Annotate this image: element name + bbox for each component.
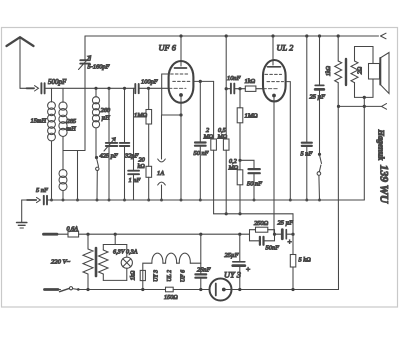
transformer output secondary: [351, 47, 358, 98]
svg-text:UY 3: UY 3: [224, 271, 241, 280]
svg-text:MΩ: MΩ: [203, 134, 214, 141]
svg-text:UF 6: UF 6: [181, 270, 187, 282]
wire B+ output line: [232, 289, 339, 291]
svg-text:250Ω: 250Ω: [254, 220, 269, 227]
wire tuning-cap branch x=85: [84, 36, 86, 60]
node ext speaker tap: [337, 105, 340, 108]
svg-text:1A: 1A: [157, 170, 164, 177]
wire speaker bottom loop: [355, 79, 374, 97]
node 25nF bottom: [199, 288, 202, 291]
node transformer top left: [86, 233, 89, 236]
transformer output core: [345, 59, 347, 85]
svg-text:1MΩ: 1MΩ: [134, 112, 148, 119]
node 260uH top: [94, 87, 97, 90]
svg-text:25µF: 25µF: [225, 252, 239, 259]
node HT 5nF top: [305, 34, 308, 37]
svg-text:5 nF: 5 nF: [301, 150, 313, 157]
wire grid line y=88.3: [45, 87, 136, 89]
svg-text:MΩ: MΩ: [228, 165, 239, 172]
svg-text:1kΩ: 1kΩ: [326, 65, 332, 76]
node UF6 anode top: [179, 34, 182, 37]
capacitor 25uF bias electrolytic: [275, 230, 294, 239]
capacitor 500pF: [41, 83, 44, 93]
resistor 1kOhm grid stopper: [245, 86, 263, 91]
svg-text:1kΩ: 1kΩ: [245, 78, 256, 85]
capacitor 25nF mains: [195, 234, 206, 289]
coil 15mH: [48, 88, 56, 200]
wire mains top line: [57, 233, 68, 235]
resistor 1MOhm UL2 grid leak: [237, 89, 243, 170]
node 0.5M bias: [225, 212, 228, 215]
wire heater to 25nF line: [190, 262, 201, 264]
node 5kOhm bottom: [291, 288, 294, 291]
node lamp tap top: [114, 233, 117, 236]
resistor 20kOhm: [146, 166, 152, 200]
ground: [17, 200, 27, 228]
resistor 150Ohm: [166, 287, 210, 292]
connector arrow ext speaker: [382, 104, 387, 110]
node secondary ground: [363, 96, 366, 99]
switch mains: [58, 287, 88, 292]
switch wave band: [96, 158, 99, 200]
wire jog coupling: [63, 150, 85, 152]
wire UF6 anode: [180, 36, 182, 62]
surge gap 1A: [158, 115, 166, 200]
wire 1nF branch: [133, 88, 135, 200]
wire 32pF branch: [124, 88, 126, 200]
node band switch top: [95, 156, 98, 159]
svg-text:32pF: 32pF: [124, 153, 139, 160]
node cathode tie: [179, 113, 182, 116]
svg-text:50 nF: 50 nF: [194, 150, 209, 157]
node screen junction: [199, 80, 202, 83]
mains stub top: [44, 233, 58, 236]
wire mains bottom line: [88, 289, 166, 291]
svg-text:MΩ: MΩ: [217, 134, 228, 141]
svg-text:UL 2: UL 2: [167, 270, 173, 282]
coil antenna coupling lower: [59, 151, 67, 201]
capacitor 5nF ground: [44, 196, 47, 205]
wire UF6 screen to divider: [193, 80, 213, 82]
wire bias line: [214, 213, 293, 215]
svg-text:50nF: 50nF: [266, 245, 280, 252]
tube UF6: [169, 61, 194, 103]
node 425pF top: [107, 87, 110, 90]
svg-text:15mH: 15mH: [31, 118, 47, 125]
heater winding UF6: [177, 253, 191, 263]
node HT 25uF top: [318, 34, 321, 37]
svg-text:220 V~: 220 V~: [51, 259, 71, 266]
svg-text:285: 285: [67, 118, 77, 125]
node bias line corner: [291, 233, 294, 236]
resistor 0.2MOhm: [237, 170, 243, 214]
svg-text:50 nF: 50 nF: [247, 181, 262, 188]
node 25uF bottom: [238, 288, 241, 291]
wire heater resistor top jog: [143, 263, 152, 270]
node bias loop right: [273, 233, 276, 236]
wire mains line to bias loop: [79, 233, 250, 235]
wire UF6 cathode to bus: [180, 97, 182, 201]
capacitor 50nF AVC: [240, 160, 260, 200]
svg-text:1kΩ: 1kΩ: [131, 271, 137, 281]
capacitor 32pF: [120, 143, 130, 146]
wire speaker top loop: [355, 47, 374, 64]
svg-text:Hagenuk: Hagenuk: [377, 129, 386, 161]
resistor 5kOhm: [290, 255, 296, 290]
svg-text:5 kΩ: 5 kΩ: [299, 257, 312, 264]
bias loop resistor 250Ohm: [250, 227, 275, 234]
node HT drop junction: [225, 34, 228, 37]
node grid junction: [147, 87, 150, 90]
svg-text:1 nF: 1 nF: [129, 177, 141, 184]
node ext speaker cross: [363, 105, 366, 108]
bias loop capacitor 50nF: [250, 234, 275, 245]
svg-text:10nF: 10nF: [227, 75, 241, 82]
node winding bottom left: [86, 288, 89, 291]
wire lamp top jog: [103, 244, 127, 246]
svg-text:25nF: 25nF: [197, 267, 211, 274]
wire secondary ground drop: [363, 97, 365, 200]
lamp 6.3V 0.3A: [121, 245, 132, 281]
node 0.2M bias: [238, 212, 241, 215]
wire bus chassis y=200: [47, 199, 364, 201]
node 25uF cathode: [238, 233, 241, 236]
resistor 1kOhm heater: [140, 270, 145, 289]
node UL2 grid tap: [238, 87, 241, 90]
wire g3-cathode tie: [162, 74, 181, 115]
wire ext speaker line: [339, 105, 382, 107]
wire grid line after 100pF: [139, 87, 169, 89]
svg-text:150Ω: 150Ω: [164, 294, 178, 301]
wire bias line drop: [292, 214, 294, 255]
wire top HT rail y=36: [85, 35, 379, 37]
transformer output primary: [335, 36, 342, 290]
svg-text:25 µF: 25 µF: [278, 220, 294, 227]
switch HT: [317, 155, 321, 200]
node 10nF junction: [225, 87, 228, 90]
svg-text:25 µF: 25 µF: [310, 94, 326, 101]
heater winding UL2: [163, 253, 177, 263]
svg-text:6,3V 0,3A: 6,3V 0,3A: [113, 249, 138, 256]
connector arrow top right: [381, 33, 387, 39]
svg-text:139 WU: 139 WU: [378, 165, 390, 204]
node bus junctions: [50, 199, 321, 202]
node bias divider tap: [238, 159, 241, 162]
variable capacitor 5-160pF: [79, 56, 92, 70]
resistor 0.5MOhm: [223, 89, 229, 214]
antenna input arrow: [27, 86, 39, 91]
speaker: [369, 53, 390, 94]
svg-text:100pF: 100pF: [141, 79, 158, 86]
svg-text:kΩ: kΩ: [138, 163, 146, 170]
tube UL2: [263, 60, 286, 101]
wire antenna feed to input arrow: [20, 87, 26, 89]
capacitor 50nF screen: [195, 81, 206, 200]
svg-text:1MΩ: 1MΩ: [245, 113, 259, 120]
capacitor 1nF: [128, 171, 139, 175]
transformer mains left winding: [83, 234, 93, 289]
resistor 1MOhm grid leak: [146, 88, 152, 166]
svg-text:mH: mH: [67, 126, 77, 133]
wire HT to 10nF junction: [225, 36, 227, 89]
transformer mains right winding: [99, 245, 109, 281]
coil 260uH: [92, 88, 99, 157]
variable capacitor 425pF: [104, 138, 117, 152]
svg-text:5-160pF: 5-160pF: [88, 64, 110, 71]
coil 285mH: [59, 88, 67, 150]
wire branch x=77.5 to bus: [77, 151, 79, 201]
node 1kOhm bottom: [141, 288, 144, 291]
svg-text:UY 3: UY 3: [154, 270, 160, 282]
mains stub bottom: [45, 288, 59, 291]
tube UY3: [210, 279, 232, 301]
svg-text:UL 2: UL 2: [277, 44, 294, 53]
svg-text:0,6A: 0,6A: [67, 226, 79, 233]
svg-text:+: +: [246, 265, 251, 274]
capacitor 25uF reservoir: [233, 234, 245, 289]
transformer mains core: [95, 248, 98, 276]
wire lamp bottom jog: [103, 279, 127, 281]
wire lamp tap: [114, 234, 116, 244]
capacitor 100pF: [135, 84, 138, 93]
wire UL2 cathode: [273, 97, 275, 234]
node primary HT top: [337, 34, 340, 37]
wire 425pF branch: [108, 88, 110, 200]
node HT switch top: [318, 153, 321, 156]
antenna: [7, 37, 34, 88]
wire UL2 anode: [272, 36, 274, 61]
svg-text:UF 6: UF 6: [159, 44, 177, 53]
node UL2 anode top: [271, 34, 274, 37]
svg-text:500pF: 500pF: [48, 78, 67, 86]
capacitor 10nF coupling: [226, 84, 245, 94]
ground arrow input: [27, 197, 40, 202]
wire UL2 screen: [286, 82, 291, 200]
svg-text:5 nF: 5 nF: [36, 187, 48, 194]
capacitor 5nF HT: [302, 36, 312, 200]
resistor 2MOhm: [211, 81, 217, 213]
fuse 0.6A: [68, 231, 79, 237]
node 32pF top: [123, 87, 126, 90]
heater winding UY3: [152, 253, 163, 263]
svg-text:425 pF: 425 pF: [100, 153, 118, 160]
node mains filter top: [199, 233, 202, 236]
capacitor 25uF HT electrolytic: [315, 36, 324, 154]
svg-text:2Ω: 2Ω: [357, 66, 363, 74]
svg-text:+: +: [287, 237, 292, 246]
